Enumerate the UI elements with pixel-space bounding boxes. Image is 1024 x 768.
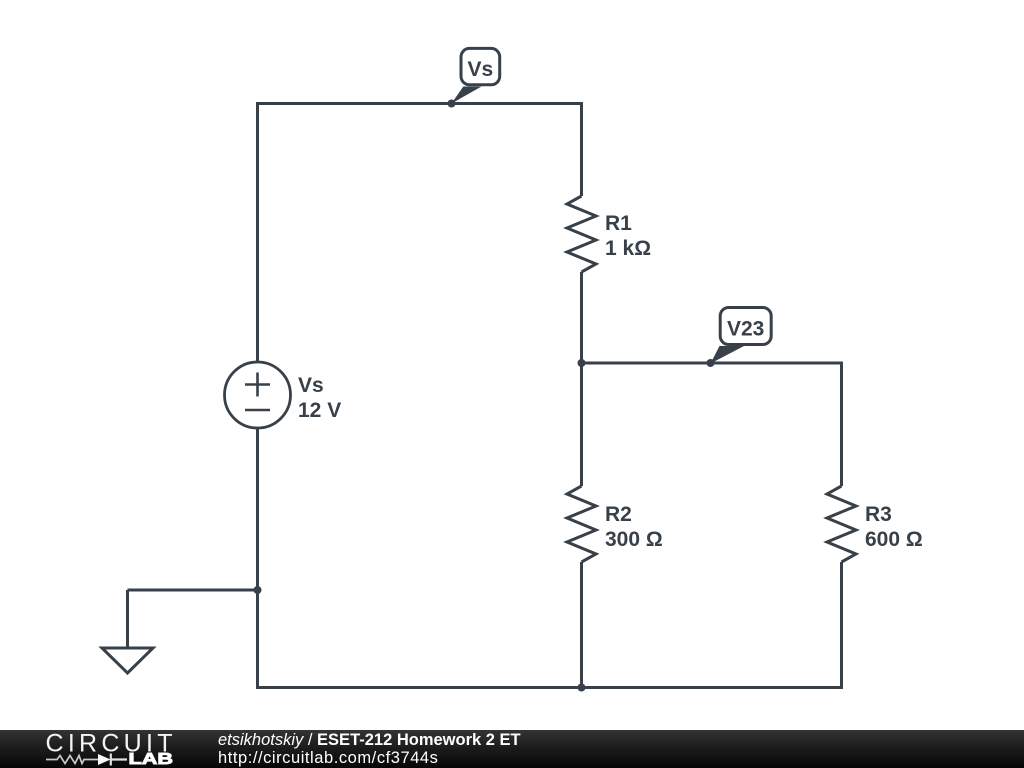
label R2 300 Ω	[605, 503, 663, 551]
wire R2 bottom lead	[580, 562, 583, 688]
node Vs flag	[448, 48, 500, 107]
svg-text:Vs: Vs	[298, 374, 324, 397]
svg-text:R1: R1	[605, 212, 632, 235]
node V23 flag	[707, 308, 772, 368]
label R1 1 kΩ	[605, 212, 651, 260]
wire top horizontal	[256, 102, 583, 105]
svg-text:600 Ω: 600 Ω	[865, 528, 923, 551]
junction node 2	[578, 359, 586, 367]
svg-text:300 Ω: 300 Ω	[605, 528, 663, 551]
label Vs 12 V	[298, 374, 341, 422]
junction ground node	[254, 586, 262, 594]
voltage source Vs	[225, 362, 291, 428]
svg-text:http://circuitlab.com/cf3744s: http://circuitlab.com/cf3744s	[218, 749, 438, 767]
wire bottom horizontal	[256, 686, 843, 689]
svg-text:1 kΩ: 1 kΩ	[605, 237, 651, 260]
svg-text:etsikhotskiy / ESET-212 Homewo: etsikhotskiy / ESET-212 Homework 2 ET	[218, 731, 521, 749]
wire ground stem	[126, 590, 129, 648]
svg-text:R2: R2	[605, 503, 632, 526]
wire left rail lower	[256, 428, 259, 690]
footer title text	[218, 731, 521, 767]
resistor R2	[567, 486, 596, 562]
label R3 600 Ω	[865, 503, 923, 551]
svg-text:R3: R3	[865, 503, 892, 526]
wire left rail upper	[256, 102, 259, 363]
wire middle horizontal node 2	[582, 362, 844, 365]
resistor R3	[827, 486, 856, 562]
wire ground branch	[128, 589, 258, 592]
svg-text:V23: V23	[727, 318, 764, 341]
CircuitLab logo	[46, 730, 174, 768]
ground	[102, 648, 153, 673]
wire R1 bottom lead	[580, 272, 583, 363]
svg-text:LAB: LAB	[129, 751, 174, 768]
wire R3 bottom lead	[840, 562, 843, 688]
wire R1 top lead	[580, 102, 583, 196]
resistor R1	[567, 196, 596, 272]
junction bottom node	[578, 684, 586, 692]
svg-text:12 V: 12 V	[298, 399, 341, 422]
svg-text:Vs: Vs	[467, 58, 493, 81]
footer bar	[0, 730, 1024, 768]
wire R3 top lead	[840, 363, 843, 486]
wire R2 top lead	[580, 363, 583, 486]
